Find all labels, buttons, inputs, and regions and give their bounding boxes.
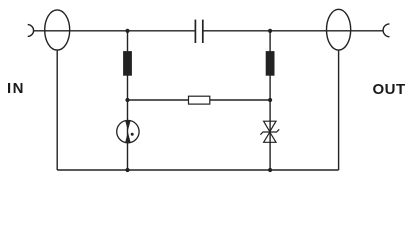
gas discharge tube F1 lower electrode arrow: [125, 132, 130, 142]
node B junction dot (top, right branch): [268, 29, 272, 33]
wire: top rail left segment (input plug to capacitor): [34, 30, 195, 32]
terminal X1 (input feed-through ellipse): [45, 10, 70, 50]
inductor L2 (filled bar, right branch): [266, 51, 275, 76]
resistor R1 (middle rail): [189, 96, 210, 104]
terminal X2 (output feed-through ellipse): [327, 9, 351, 50]
label OUT: [373, 81, 406, 98]
wire: bottom rail: [57, 169, 338, 171]
wire: left shunt branch (node A to bottom rail): [127, 31, 129, 170]
wire: top rail right segment (capacitor to output plug): [203, 30, 383, 32]
suppressor diode V1 upper triangle: [264, 121, 276, 132]
gas discharge tube F1 gas-filled dot: [131, 133, 134, 136]
inductor L1 (filled bar, left branch): [123, 51, 132, 76]
input plug contact (open semicircle): [28, 25, 34, 37]
gas discharge tube F1 (circle): [117, 120, 139, 142]
node A junction dot (top, left branch): [125, 29, 129, 33]
output plug contact (open semicircle): [383, 24, 389, 37]
gas discharge tube F1 upper electrode arrow: [125, 121, 130, 131]
wire: left down-lead from terminal X1 to bottom rail: [56, 50, 58, 170]
suppressor diode V1 lower triangle: [264, 132, 276, 142]
label IN: [7, 80, 25, 97]
junction dot bottom-left: [125, 168, 129, 172]
capacitor C1 plate right: [202, 20, 204, 43]
suppressor diode V1 zener bar with bent ends: [260, 129, 279, 134]
capacitor C1 plate left: [194, 20, 196, 43]
junction dot middle-right: [268, 98, 272, 102]
wire: right shunt branch (node B to bottom rail): [269, 31, 271, 170]
wire: right down-lead from terminal X2 to bottom rail: [338, 50, 340, 170]
wire: middle rail between branches: [128, 99, 271, 101]
junction dot bottom-right: [268, 168, 272, 172]
junction dot middle-left: [125, 98, 129, 102]
